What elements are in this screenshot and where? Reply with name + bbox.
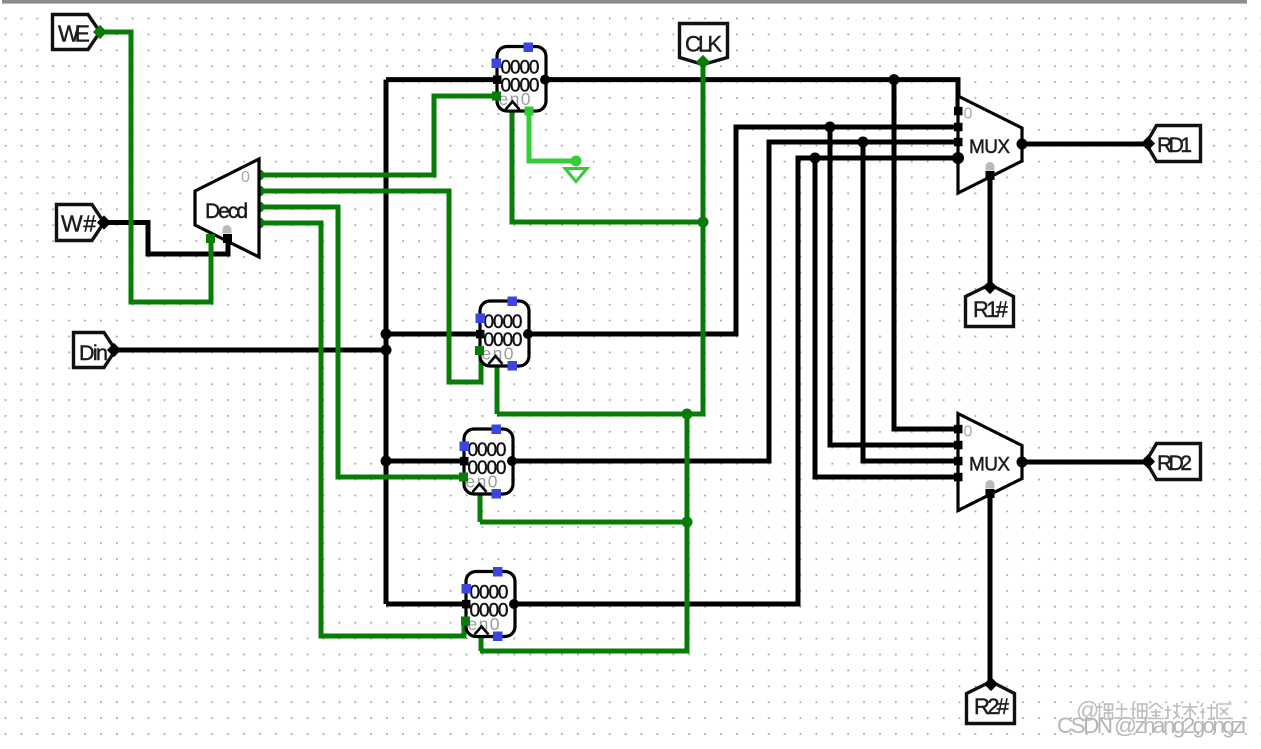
label R1# [966, 280, 1014, 327]
svg-text:WE: WE [58, 21, 90, 47]
wire CLK trunk lower [480, 414, 687, 651]
wire decoder out0 to R0 en [259, 96, 495, 175]
register R1 handle bottom [508, 361, 518, 371]
wire decoder out3 to R3 en [259, 223, 464, 636]
ground symbol [565, 169, 587, 182]
register R2 [464, 429, 513, 494]
wire R2 clock branch [478, 493, 483, 522]
register R2 Q pin [507, 456, 517, 466]
decoder en pin [206, 234, 215, 243]
wire R2 Q to MUX1 in2 [514, 142, 958, 461]
black junction dots [381, 74, 900, 466]
wire R0 clock branch [512, 111, 703, 222]
label RD1 [1141, 126, 1201, 162]
svg-text:0: 0 [964, 424, 973, 441]
svg-text:CSDN @zhang2gongzi: CSDN @zhang2gongzi [1057, 713, 1246, 738]
wire branch to MUX2 in2 [863, 142, 958, 461]
node reg3Q/mux2in3 [810, 153, 821, 164]
register R0 handle top [524, 43, 534, 53]
decoder sel bulb [223, 225, 232, 234]
mux U2 in2 pin [954, 138, 963, 147]
wire R3 Q to MUX1 in3 [514, 158, 958, 604]
svg-text:CLK: CLK [685, 32, 722, 57]
mux U3 MUX [958, 414, 1022, 511]
mux U2 in3 pin [952, 152, 964, 164]
svg-text:W#: W# [61, 211, 96, 237]
register R3 Q pin [509, 599, 519, 609]
mux U2 out pin [1017, 139, 1028, 150]
svg-text:R1#: R1# [973, 297, 1009, 322]
svg-text:R2#: R2# [974, 694, 1010, 719]
register R3 handle left [462, 584, 472, 594]
svg-text:RD1: RD1 [1157, 134, 1192, 157]
wire trunk to R0 D [386, 77, 497, 82]
label R2# [967, 677, 1015, 724]
svg-text:Din: Din [79, 341, 108, 365]
svg-text:RD2: RD2 [1157, 452, 1192, 475]
svg-text:MUX: MUX [969, 455, 1010, 476]
wire MUX2 out to RD2 [1022, 460, 1148, 465]
wire R1 Q to MUX1 in1 [530, 127, 958, 334]
mux U3 sel pin [986, 489, 995, 498]
svg-text:0: 0 [241, 169, 250, 186]
svg-text:Decd: Decd [205, 200, 248, 223]
register R0 Q pin [540, 75, 550, 85]
register R1 handle top [508, 297, 518, 307]
register R2 en pin [459, 473, 468, 482]
wire R1# to MUX1 sel [988, 177, 993, 288]
register R0 D pin [493, 75, 502, 84]
register R0 handle left [492, 59, 502, 69]
node decoder out0 [254, 170, 265, 181]
label CLK [680, 24, 728, 70]
node decoder out1 [254, 186, 265, 197]
node decoder out2 [254, 202, 265, 213]
wire branch to MUX2 in1 [830, 127, 958, 445]
node CLK/R1 [682, 409, 693, 420]
register R1 en pin [475, 346, 484, 355]
node reg1Q/mux2in1 [825, 122, 836, 133]
node Din join [381, 345, 392, 356]
register R3 handle bottom [493, 632, 503, 642]
BRIGHT GREEN NET [529, 111, 573, 161]
node decoder out3 [254, 218, 265, 229]
register R0 en pin [492, 92, 501, 101]
label Din [74, 333, 122, 368]
mux U2 in1 pin [954, 123, 963, 132]
node Din/R1 [381, 329, 392, 340]
wire decoder out1 to R1 en [259, 191, 481, 382]
wire decoder out2 to R2 en [259, 207, 465, 477]
wire trunk to R2 D [386, 459, 464, 464]
register R1 [480, 301, 529, 366]
node ground dot [571, 156, 582, 167]
watermark juejin [1076, 697, 1233, 723]
register R3 en pin [461, 617, 470, 626]
wire CLK trunk [497, 63, 703, 414]
register R1 D pin [476, 330, 485, 339]
wire trunk to R3 D [386, 602, 466, 607]
label RD2 [1141, 444, 1201, 480]
register R1 handle left [476, 314, 486, 324]
register R3 D pin [462, 600, 471, 609]
label W# [57, 205, 112, 241]
register R2 handle top [492, 425, 502, 435]
node reg0Q/mux2in0 [889, 74, 900, 85]
wire W# to decoder sel [103, 223, 228, 255]
wire R1 clock branch [495, 366, 500, 414]
wire branch to MUX2 in3 [815, 158, 958, 477]
node Din/R2 [381, 456, 392, 467]
wire R3 clock branch [479, 637, 484, 651]
register R2 handle bottom [492, 489, 502, 499]
wire MUX1 out to RD1 [1022, 142, 1148, 147]
wire R0 aux to ground [529, 111, 573, 161]
decoder U1 Decd [195, 159, 259, 257]
mux U2 sel pin [986, 171, 995, 180]
svg-text:0: 0 [964, 106, 973, 123]
register R2 handle left [460, 442, 470, 452]
mux U3 in1 pin [954, 441, 963, 450]
mux U2 sel bulb [986, 162, 995, 171]
svg-text:MUX: MUX [969, 137, 1010, 158]
label WE [53, 15, 108, 50]
mux U2 MUX [958, 96, 1022, 193]
register R0 aux pin [525, 107, 534, 116]
register R2 D pin [460, 457, 469, 466]
mux U3 in0 pin [954, 425, 963, 434]
wire branch to MUX2 in0 [894, 80, 958, 429]
wire R2# to MUX2 sel [988, 495, 993, 684]
mux U3 sel bulb [986, 480, 995, 489]
mux U3 out pin [1017, 457, 1028, 468]
node CLK/R0 [698, 217, 709, 228]
wire CLK to R2 [480, 520, 687, 525]
wire trunk to R1 D [386, 332, 480, 337]
register R0 [497, 47, 546, 112]
decoder sel pin [223, 234, 232, 243]
register R3 handle top [493, 567, 503, 577]
title bar fragment [2, 0, 1247, 4]
mux U2 in0 pin [954, 107, 963, 116]
DARK GREEN WIRES [99, 32, 703, 651]
register R3 [466, 572, 515, 637]
wire Din vertical trunk [384, 80, 389, 604]
node reg2Q/mux2in2 [858, 137, 869, 148]
mux U3 in2 pin [954, 457, 963, 466]
green junction dots [254, 170, 709, 528]
register R1 Q pin [523, 329, 533, 339]
BLACK WIRES [103, 80, 1148, 684]
node CLK/R2 [682, 517, 693, 528]
wire Din bus [113, 348, 386, 353]
wire R0 Q to MUX1 in0 [546, 80, 958, 111]
mux U3 in3 pin [954, 473, 963, 482]
wire WE to decoder en [99, 32, 211, 302]
